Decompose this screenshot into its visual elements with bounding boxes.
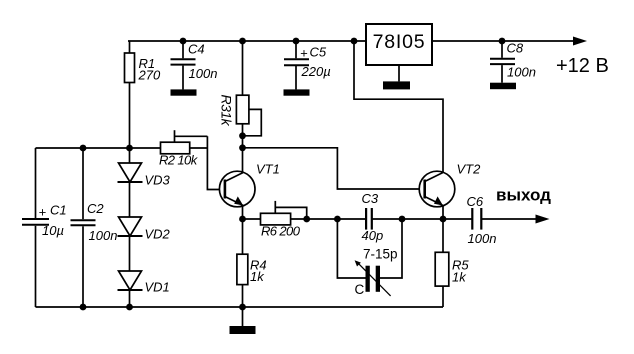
ground under C8: [490, 83, 516, 90]
arrowhead +12V input: [573, 37, 587, 46]
node dot C2 bottom: [80, 304, 87, 311]
wire C6 to output: [481, 218, 537, 220]
node dot VT1 collector net: [239, 144, 246, 151]
node dot R3 tap join: [239, 132, 246, 139]
wire VT2 emitter down: [442, 206, 444, 220]
svg-text:C3: C3: [362, 191, 379, 206]
node dot diode chain bottom: [126, 304, 133, 311]
node dot regulator left pin: [351, 38, 358, 45]
svg-text:220µ: 220µ: [301, 64, 331, 79]
diode VD3: [118, 163, 143, 182]
wire C3 to VT2 emitter node: [372, 218, 473, 220]
svg-text:100n: 100n: [89, 228, 118, 243]
svg-text:C1: C1: [50, 203, 67, 218]
node dot VT1 emitter: [239, 216, 246, 223]
node dot VT2 emitter: [440, 216, 447, 223]
capacitor C1: [22, 148, 49, 307]
svg-text:C2: C2: [87, 201, 104, 216]
transistor VT1: [219, 171, 255, 207]
resistor R3 (trimmer): [236, 41, 261, 148]
wire VT1 collector up: [242, 148, 244, 173]
node dot R6 right: [303, 216, 310, 223]
svg-text:100n: 100n: [507, 65, 536, 80]
capacitor C4: [171, 41, 196, 89]
svg-text:40p: 40p: [362, 228, 384, 243]
resistor R6 (trimmer): [261, 201, 307, 225]
wire mid-left horizontal: [36, 147, 161, 149]
wire diode chain vertical: [129, 148, 131, 307]
resistor R2 (trimmer): [161, 130, 208, 154]
capacitor C2: [71, 148, 96, 307]
ground under C5: [284, 89, 310, 95]
resistor R5: [435, 219, 449, 307]
svg-text:C8: C8: [507, 41, 524, 56]
resistor R1: [125, 41, 135, 148]
svg-text:100n: 100n: [189, 66, 218, 81]
svg-text:R6 200: R6 200: [261, 224, 301, 239]
svg-text:выход: выход: [496, 185, 551, 204]
svg-text:VD2: VD2: [145, 227, 171, 242]
svg-text:C4: C4: [188, 42, 205, 57]
node dot C8 top rail: [499, 38, 506, 45]
svg-text:78I05: 78I05: [373, 31, 426, 53]
svg-text:1k: 1k: [250, 269, 265, 284]
svg-text:270: 270: [138, 68, 161, 83]
node dot var-cap left: [334, 216, 341, 223]
node dot C2 top: [80, 145, 87, 152]
regulator U1 78l05 box: [366, 24, 432, 65]
wire R6 to C3: [307, 218, 366, 220]
svg-text:VD1: VD1: [145, 280, 170, 295]
wire top +12V rail left segment: [128, 40, 366, 42]
node dot R3 top rail: [239, 38, 246, 45]
svg-text:C: C: [355, 282, 365, 297]
wire variable capacitor loop: [337, 219, 365, 278]
ground under 78l05: [383, 65, 410, 89]
svg-text:1k: 1k: [452, 270, 467, 285]
wire emitter node to R6: [243, 218, 261, 220]
node dot diode chain top: [126, 145, 133, 152]
resistor R4: [237, 219, 248, 307]
svg-text:C6: C6: [467, 194, 484, 209]
svg-text:VT1: VT1: [256, 162, 280, 177]
svg-text:7-15p: 7-15p: [363, 247, 398, 262]
svg-text:VD3: VD3: [145, 173, 171, 188]
node dot C4 top rail: [180, 38, 187, 45]
wire VT1 collector node to VT2 base: [243, 148, 426, 189]
svg-text:+: +: [300, 46, 308, 61]
transistor VT2: [419, 171, 455, 207]
svg-text:+12 В: +12 В: [556, 55, 609, 77]
capacitor C6: [472, 208, 481, 230]
svg-text:100n: 100n: [468, 231, 497, 246]
wire VT1 emitter down: [242, 206, 244, 220]
diode VD2: [118, 217, 143, 236]
svg-text:R2 10k: R2 10k: [159, 153, 199, 168]
diode VD1: [118, 271, 143, 290]
svg-text:R31k: R31k: [219, 95, 235, 127]
node dot R4 ground: [239, 304, 246, 311]
node dot var-cap right: [399, 216, 406, 223]
ground main: [230, 307, 256, 334]
capacitor C3: [366, 208, 372, 230]
wire top +12V rail right segment: [432, 40, 576, 42]
svg-text:C5: C5: [310, 45, 327, 60]
variable capacitor C 7-15p: [355, 260, 391, 296]
capacitor C5: [284, 41, 309, 89]
svg-text:10µ: 10µ: [42, 223, 64, 238]
svg-text:VT2: VT2: [457, 162, 482, 177]
node dot C5 top rail: [293, 38, 300, 45]
svg-text:+: +: [39, 205, 47, 220]
ground under C4: [171, 89, 197, 95]
wire from regulator input node down to VT2 collector: [354, 41, 443, 172]
arrowhead output: [536, 215, 550, 224]
wire bottom rail: [36, 306, 444, 308]
capacitor C8: [490, 41, 515, 83]
wire R2 tap to VT1 base: [207, 136, 225, 189]
